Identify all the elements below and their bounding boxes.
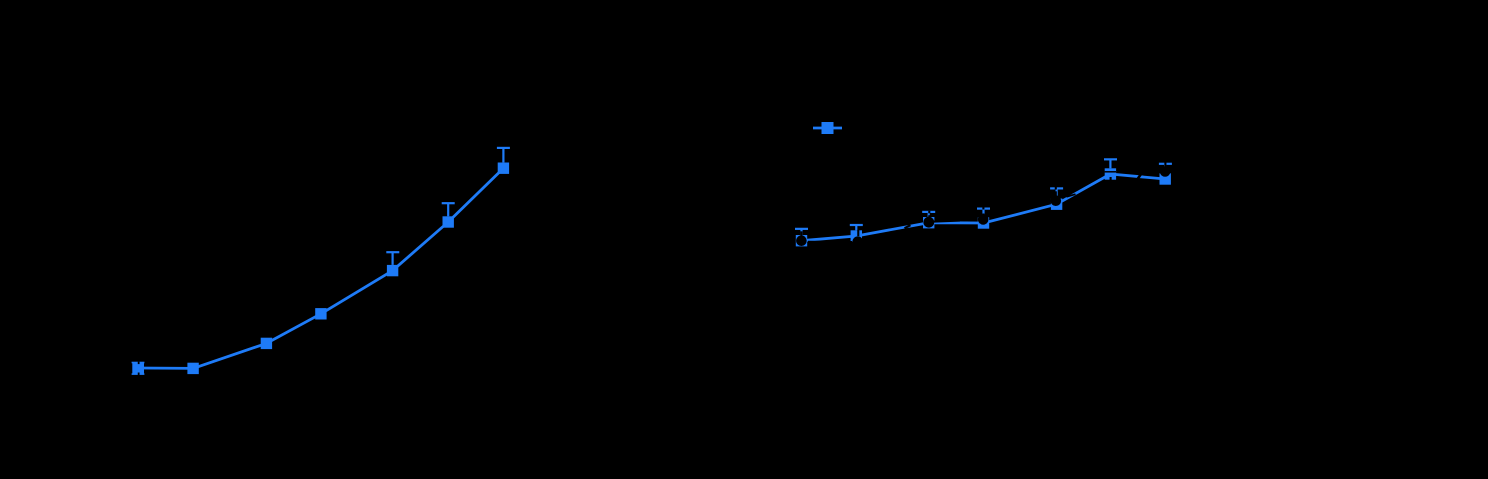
right chart point6 black cap crossing [1105, 171, 1116, 173]
right chart hidden-series black bar notches [801, 162, 1165, 236]
left chart series line [138, 168, 503, 368]
right chart hidden-series black circles [796, 166, 1170, 247]
right chart series line [802, 174, 1166, 241]
right chart hidden-series black line crossings [808, 174, 1141, 242]
right chart error bars [795, 159, 1172, 235]
left chart series squares [132, 163, 509, 375]
left chart error bars [386, 148, 510, 265]
left chart point1 black notch dents [138, 362, 140, 365]
left chart point1 tiny error caps [132, 363, 145, 375]
right chart series squares [796, 168, 1171, 246]
right chart legend swatch [813, 122, 842, 134]
